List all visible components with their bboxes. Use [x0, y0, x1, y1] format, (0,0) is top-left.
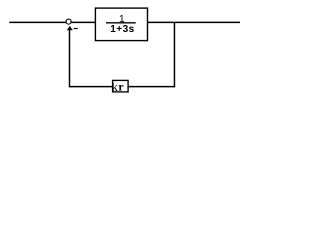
- wire: input line into summing junction: [9, 21, 66, 23]
- minus sign at summing junction: [74, 28, 78, 30]
- svg-text:1+3s: 1+3s: [110, 24, 135, 35]
- block U1: transfer function box: [95, 8, 147, 41]
- wire: block U1 output line: [148, 21, 241, 23]
- wire: feedback vertical rise into summing junction: [69, 30, 71, 87]
- wire: feedback branch vertical drop: [173, 22, 175, 86]
- fraction bar: [106, 22, 136, 24]
- wire: feedback bottom line to block K1: [128, 86, 175, 88]
- svg-text:r: r: [118, 80, 123, 94]
- wire: feedback line from block K1 to below summing junction: [70, 86, 113, 88]
- arrowhead into summing junction: [67, 26, 73, 30]
- summing junction (circle): [66, 19, 71, 24]
- block K1: feedback gain box: [113, 80, 129, 92]
- wire: summing junction to block U1: [71, 21, 95, 23]
